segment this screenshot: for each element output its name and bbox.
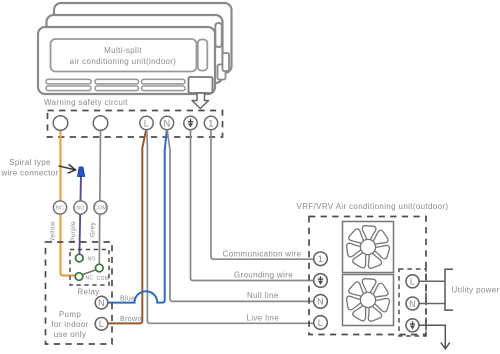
warning safety circuit dashed box bbox=[48, 111, 223, 138]
label: Utility power bbox=[452, 286, 500, 295]
label: Warning safety circuit bbox=[44, 98, 128, 107]
label Grey (rotated) bbox=[90, 221, 97, 237]
wire communication: terminal 1 to outdoor 1 bbox=[211, 131, 314, 260]
terminal L (warning box) bbox=[140, 116, 153, 129]
outdoor terminal earth bbox=[314, 274, 328, 288]
svg-text:N: N bbox=[98, 298, 105, 308]
svg-text:Warning safety circuit: Warning safety circuit bbox=[44, 98, 128, 107]
relay contact NC bbox=[75, 273, 93, 282]
outdoor terminal N bbox=[314, 295, 328, 309]
svg-text:Multi-split: Multi-split bbox=[104, 46, 142, 55]
svg-text:L: L bbox=[144, 118, 149, 128]
pump dashed box bbox=[46, 242, 113, 344]
terminal earth (warning box) bbox=[184, 116, 197, 129]
outdoor terminal L bbox=[314, 316, 328, 330]
wire null line: N terminal to outdoor N bbox=[167, 131, 313, 302]
svg-text:Relay: Relay bbox=[77, 288, 99, 297]
svg-text:Utility power: Utility power bbox=[452, 286, 500, 295]
label Yellow (rotated) bbox=[50, 221, 57, 242]
arrow to connector bbox=[59, 164, 76, 173]
label: VRF/VRV Air conditioning unit(outdoor) bbox=[297, 202, 449, 211]
svg-text:wire connector: wire connector bbox=[1, 169, 59, 178]
relay contact NO bbox=[76, 254, 96, 262]
svg-text:1: 1 bbox=[208, 118, 213, 128]
wire blue: N terminal to pump N bbox=[108, 131, 167, 303]
svg-text:L: L bbox=[99, 319, 104, 329]
relay dashed box bbox=[70, 250, 109, 286]
wire node COM bbox=[94, 201, 107, 214]
wire node NC bbox=[53, 201, 66, 214]
terminal 1 (warning box) bbox=[204, 116, 217, 129]
svg-text:Pump: Pump bbox=[59, 310, 81, 319]
svg-text:NO: NO bbox=[88, 256, 96, 262]
svg-text:Purple: Purple bbox=[70, 221, 77, 242]
terminal circle B (plain) bbox=[93, 116, 108, 131]
svg-text:Communication wire: Communication wire bbox=[223, 249, 302, 258]
label: Null line bbox=[247, 291, 279, 300]
label Brown bbox=[120, 316, 142, 323]
svg-text:use only: use only bbox=[54, 330, 87, 339]
terminal circle A (plain) bbox=[53, 116, 68, 131]
wire purple: connector to relay NO bbox=[79, 175, 81, 254]
svg-text:N: N bbox=[409, 299, 416, 309]
wire yellow: terminal to relay NC bbox=[61, 130, 76, 276]
label Blue bbox=[120, 295, 135, 302]
indoor unit U1 (front) bbox=[38, 27, 215, 94]
label: Grounding wire bbox=[234, 271, 293, 280]
svg-text:Null line: Null line bbox=[247, 291, 279, 300]
wire utility earth to ground arrow bbox=[419, 325, 450, 349]
indoor unit U2 (middle) bbox=[47, 15, 223, 83]
label: Relay bbox=[77, 288, 99, 297]
svg-text:L: L bbox=[318, 318, 323, 328]
spiral wire connector (wire nut) bbox=[78, 167, 85, 177]
label: Live line bbox=[247, 313, 280, 322]
label: Communication wire bbox=[223, 249, 302, 258]
indoor unit U3 (back) bbox=[54, 3, 232, 73]
svg-text:Grounding wire: Grounding wire bbox=[234, 271, 293, 280]
outdoor terminal 1 bbox=[314, 252, 328, 266]
label: Spiral type wire connector bbox=[1, 158, 59, 178]
pump terminal N bbox=[95, 296, 108, 309]
svg-text:1: 1 bbox=[318, 254, 323, 264]
svg-text:L: L bbox=[410, 277, 415, 287]
svg-text:Spiral type: Spiral type bbox=[9, 158, 51, 167]
fan F2 bbox=[343, 275, 394, 326]
wire brown: L terminal to pump L bbox=[108, 131, 146, 324]
label Purple (rotated) bbox=[70, 221, 77, 242]
wire grey: terminal to relay COM bbox=[99, 130, 100, 265]
svg-text:Yellow: Yellow bbox=[50, 221, 57, 242]
svg-text:COM: COM bbox=[94, 206, 107, 212]
svg-text:NC: NC bbox=[86, 276, 94, 282]
grille slats bbox=[46, 79, 185, 90]
terminal box tab of middle unit bbox=[218, 65, 226, 80]
svg-text:Grey: Grey bbox=[90, 221, 97, 237]
wire node NO bbox=[74, 201, 87, 214]
label: Pump for indoor use only bbox=[51, 310, 88, 339]
side tab of back unit bbox=[215, 23, 222, 47]
svg-text:Live line: Live line bbox=[247, 313, 280, 322]
terminal box tab of back unit bbox=[223, 53, 230, 71]
svg-text:air conditioning unit(indoor): air conditioning unit(indoor) bbox=[70, 57, 177, 66]
utility terminal L bbox=[406, 275, 419, 288]
fan F1 bbox=[343, 222, 394, 273]
utility power bracket bbox=[445, 269, 453, 310]
svg-text:VRF/VRV Air conditioning unit(: VRF/VRV Air conditioning unit(outdoor) bbox=[297, 202, 449, 211]
svg-text:NC: NC bbox=[56, 206, 64, 212]
terminal N (warning box) bbox=[160, 116, 173, 129]
wire live line: L terminal to outdoor L bbox=[147, 131, 314, 324]
hollow arrow down from indoor unit bbox=[192, 93, 209, 109]
wire grounding: terminal to outdoor earth bbox=[191, 131, 314, 281]
wire utility N bbox=[419, 303, 445, 305]
svg-text:Brown: Brown bbox=[120, 316, 142, 323]
svg-text:N: N bbox=[317, 297, 324, 307]
svg-text:COM: COM bbox=[97, 276, 110, 282]
svg-text:N: N bbox=[164, 118, 171, 128]
relay contact COM bbox=[96, 264, 110, 282]
wire utility L bbox=[419, 280, 445, 282]
svg-text:NO: NO bbox=[76, 206, 84, 212]
svg-text:for indoor: for indoor bbox=[51, 320, 88, 329]
utility terminal N bbox=[406, 297, 419, 310]
terminal box on indoor unit bbox=[189, 77, 213, 93]
outdoor unit dashed box bbox=[309, 217, 426, 335]
relay arm bbox=[82, 270, 96, 275]
utility terminal earth bbox=[406, 319, 419, 332]
utility terminals dashed box bbox=[399, 269, 426, 336]
svg-text:Blue: Blue bbox=[120, 295, 135, 302]
pump terminal L bbox=[95, 318, 108, 331]
